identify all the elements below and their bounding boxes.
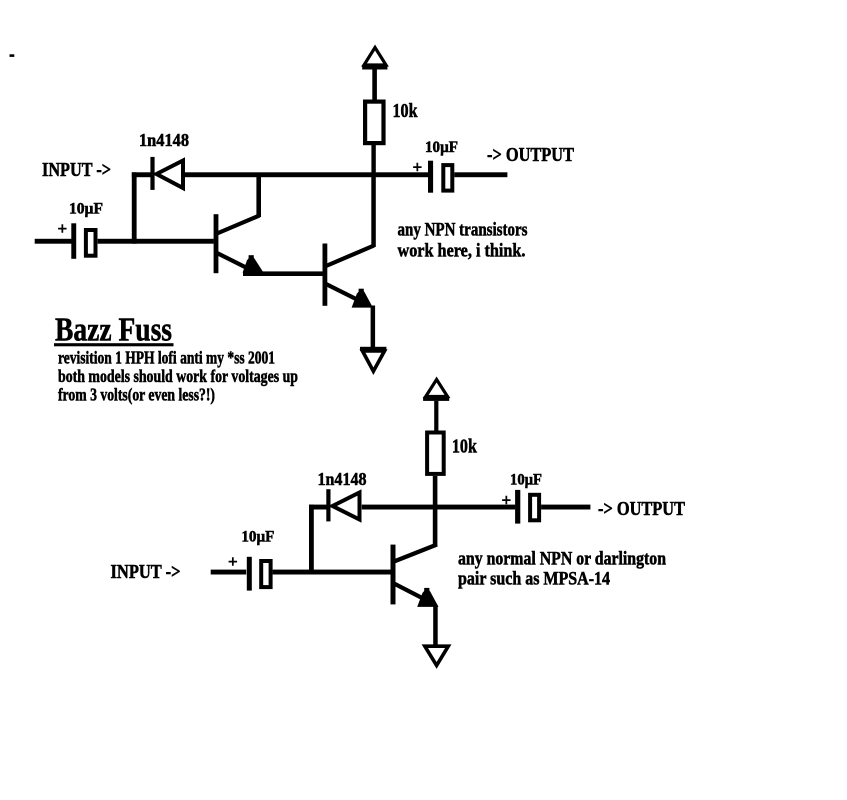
wire bus left of diode D2 [309,505,327,510]
transistor Q2 base bar [323,244,328,306]
wire C3 to Q3 base [273,570,391,575]
emitter arrow Q1 [243,255,264,272]
wire Q1 collector vertical to bus [256,176,261,218]
capacitor C3 plate [247,557,252,591]
transistor Q3 collector diagonal [394,545,437,562]
capacitor C1 plate [71,223,76,258]
ground symbol (top circuit) [360,347,386,371]
transistor Q2 collector diagonal [326,246,374,267]
emitter arrow Q3 [417,588,438,607]
capacitor C3 body [261,561,270,587]
svg-text:from 3 volts(or even less?!): from 3 volts(or even less?!) [58,385,215,406]
svg-text:+: + [413,158,423,177]
svg-text:pair such as MPSA-14: pair such as MPSA-14 [458,569,610,590]
capacitor C4 plate [515,490,520,524]
wire resistor to bus node [371,145,375,177]
svg-text:10µF: 10µF [241,529,274,546]
transistor Q3 base bar [391,545,396,605]
wire bus D2 to cap C4 [362,505,515,510]
svg-text:-> OUTPUT: -> OUTPUT [487,145,574,166]
emitter arrow Q2 [352,289,373,308]
left vertical wire (diode branch, top) [132,172,137,243]
diode D1 triangle [157,161,184,189]
capacitor C1 body [86,230,96,256]
svg-text:10µF: 10µF [69,201,103,218]
resistor R2 10k [427,433,444,474]
svg-text:revisition 1 HPH lofi anti my: revisition 1 HPH lofi anti my *ss 2001 [58,348,275,368]
wire bus diode to output cap [185,172,429,177]
wire input left segment [35,239,72,244]
stray mark top-left [10,54,15,57]
power supply V+ symbol (bottom circuit) [423,380,449,401]
svg-text:INPUT ->: INPUT -> [42,160,111,181]
power supply V+ symbol (up triangle) [362,48,387,70]
svg-text:INPUT ->: INPUT -> [111,562,181,583]
svg-text:1n4148: 1n4148 [139,130,189,150]
svg-text:any normal NPN or darlington: any normal NPN or darlington [458,549,666,570]
wire Q2 emitter to ground [371,306,376,349]
capacitor C2 body [443,165,452,191]
svg-text:10µF: 10µF [510,472,542,489]
svg-text:10k: 10k [452,436,478,458]
wire C2 to output [454,172,507,177]
transistor Q3 emitter diagonal [394,584,426,601]
svg-text:10µF: 10µF [425,139,458,156]
svg-text:1n4148: 1n4148 [318,469,367,489]
ground symbol (bottom circuit) [425,646,449,665]
wire Q3 emitter to ground [433,605,438,646]
svg-text:+: + [58,219,68,238]
resistor R1 10k [365,102,383,144]
wire resistor/bus/Q2-collector vertical [371,177,376,247]
wire V+ to resistor [372,70,377,101]
svg-text:work here, i think.: work here, i think. [398,241,526,262]
svg-text:+: + [228,552,238,571]
diode D2 cathode bar [326,489,330,521]
svg-text:+: + [502,491,512,510]
wire bus left of diode [132,172,152,177]
transistor Q1 base bar [214,214,219,273]
wire input left segment (bottom) [211,570,247,575]
wire resistor R2 to Q3 collector [433,476,438,547]
transistor Q2 emitter diagonal [326,284,360,301]
transistor Q1 collector diagonal [217,216,260,234]
svg-text:both models should work for vo: both models should work for voltages up [58,366,298,386]
capacitor C4 body [530,495,539,521]
title underline [54,343,174,346]
transistor Q1 emitter diagonal [217,253,250,270]
svg-text:any NPN transistors: any NPN transistors [398,220,528,241]
capacitor C2 plate [428,161,433,193]
diode D2 triangle [333,493,360,520]
wire V+ to resistor R2 [434,401,438,431]
left vertical wire (diode branch, bottom) [309,505,314,575]
svg-text:10k: 10k [393,100,419,122]
diode D1 1n4148 cathode bar [150,157,154,190]
wire C4 to output (bottom) [541,505,590,510]
svg-text:-> OUTPUT: -> OUTPUT [598,499,685,520]
wire cap C1 to Q1 base [98,239,214,244]
svg-text:Bazz Fuss: Bazz Fuss [55,312,172,349]
wire Q1 emitter to Q2 base [243,271,323,276]
